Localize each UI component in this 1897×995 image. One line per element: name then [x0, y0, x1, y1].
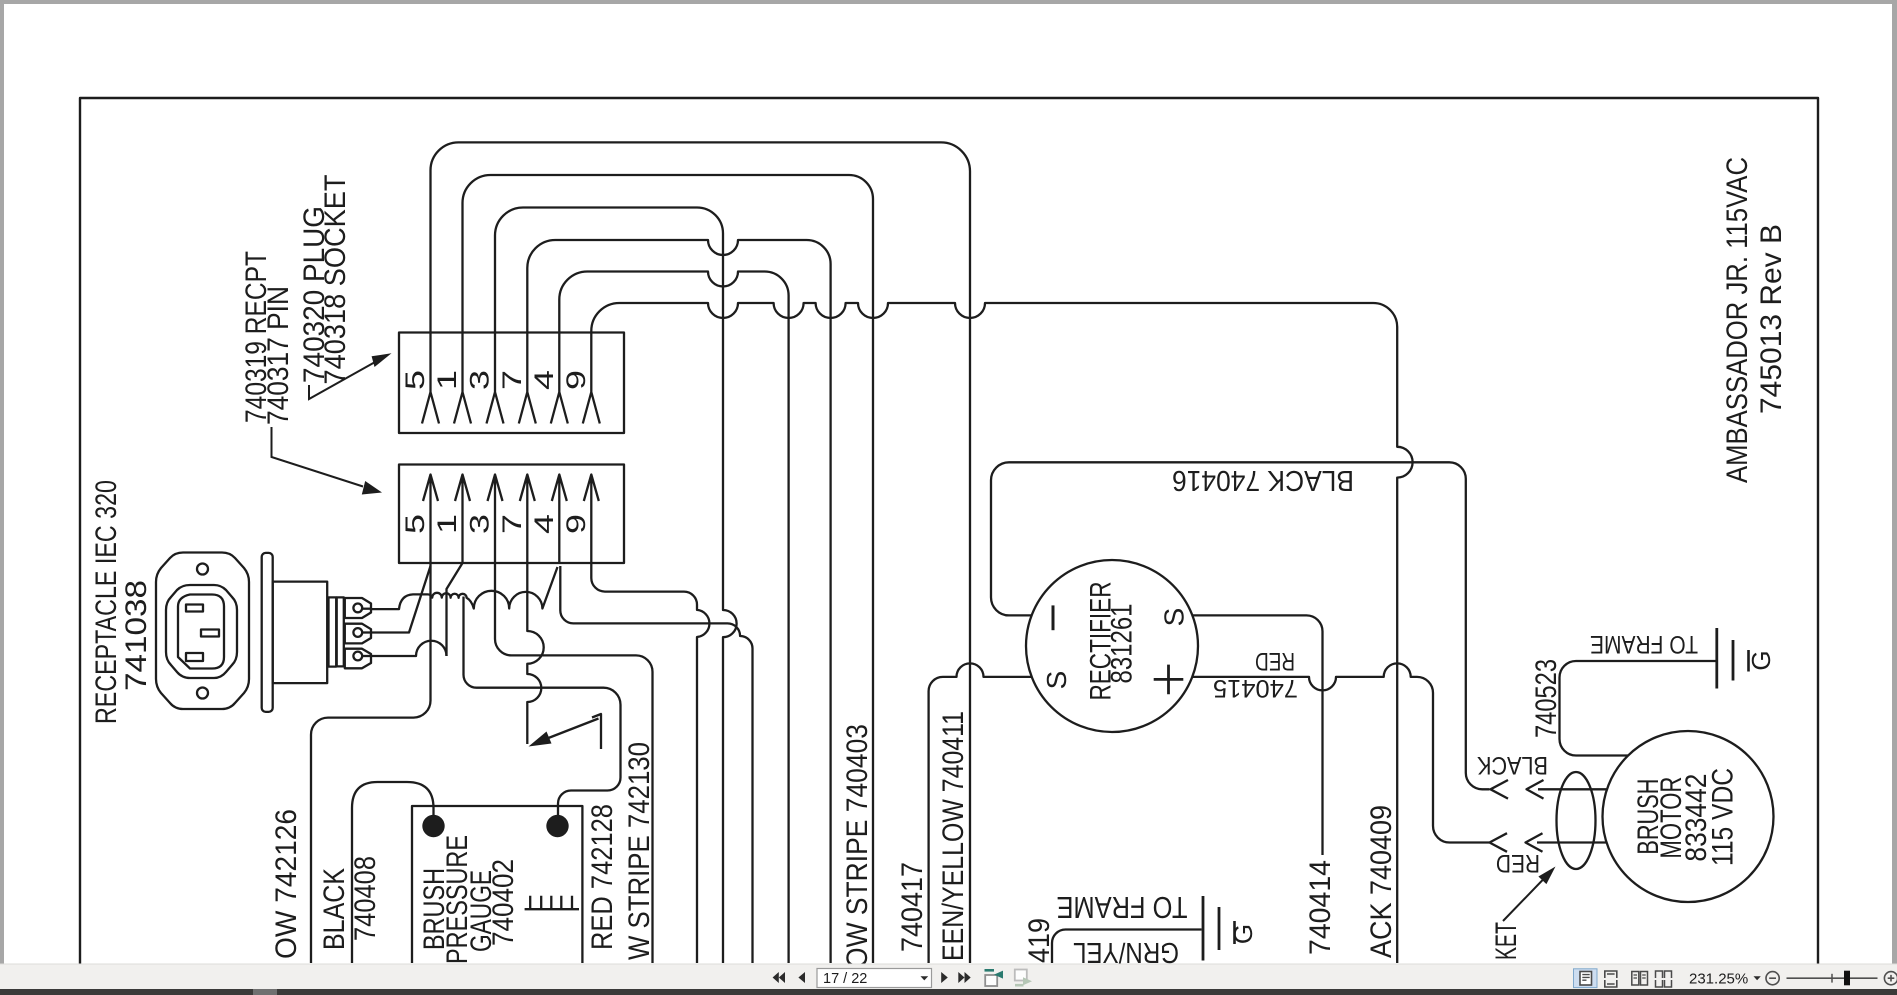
- wire from caterpillar x463.5 down, right y687.7, down x620.5, jog to gauge right terminal (RED 742128): [464, 597, 621, 816]
- plug body: [273, 582, 328, 684]
- svg-text:5: 5: [400, 514, 430, 534]
- svg-text:4: 4: [529, 370, 559, 390]
- svg-text:740523: 740523: [1530, 659, 1563, 738]
- svg-text:GRN/YEL: GRN/YEL: [1073, 936, 1179, 968]
- svg-text:S: S: [1041, 671, 1072, 690]
- zoom slider: [1787, 977, 1878, 979]
- wire plug pin1 to caterpillar start: [362, 608, 372, 610]
- previous view icon: [985, 975, 997, 986]
- zoom in button: [1884, 972, 1897, 985]
- motor black lead pin-side chevron and line into motor: [1527, 780, 1608, 799]
- switch arrowhead: [529, 732, 552, 747]
- svg-text:740317 PIN: 740317 PIN: [262, 286, 295, 425]
- wire top plug pin caterpillar bridge to block2-pin4 with humps over pin3/pin7 verticals: [372, 567, 558, 609]
- block1 pin7 stub and chevron: [519, 333, 536, 424]
- facing layout button: [1632, 972, 1639, 986]
- plug neck bar 2: [337, 597, 344, 666]
- svg-text:9: 9: [561, 514, 591, 534]
- block1 740319/740320 connector rectangle: [399, 333, 624, 434]
- wire block2-pin4 stub down to rightward run y623.4 ending at x752.5 vertical: [560, 566, 752, 963]
- svg-text:740417: 740417: [896, 862, 929, 952]
- svg-text:EEN/YELLOW 740411: EEN/YELLOW 740411: [937, 711, 970, 961]
- ground G2 bar 1: [1202, 896, 1205, 961]
- svg-text:740408: 740408: [349, 856, 382, 941]
- motor red lead wire-side chevron: [1490, 833, 1508, 852]
- svg-text:BLACK 740416: BLACK 740416: [1172, 464, 1354, 496]
- block1 pin5 stub and chevron: [422, 333, 439, 424]
- svg-text:115 VDC: 115 VDC: [1707, 768, 1740, 866]
- receptacle IEC 320 outer flange: [156, 553, 249, 710]
- wire block2-pin5 down through caterpillar to YELLOW 742126: [311, 563, 431, 963]
- svg-text:740402: 740402: [487, 859, 520, 946]
- svg-text:740414: 740414: [1304, 860, 1337, 955]
- svg-text:741038: 741038: [120, 580, 153, 691]
- wire plug pin2 stub: [362, 631, 372, 633]
- continuous layout button: [1605, 971, 1617, 987]
- rectifier plus terminal symbol: [1154, 665, 1184, 695]
- svg-text:W STRIPE 742130: W STRIPE 742130: [623, 742, 656, 960]
- svg-text:1: 1: [432, 370, 462, 390]
- leader arrow to block2 (740319 RECPT / 740317 PIN): [272, 427, 364, 487]
- block1 pin9 stub and chevron: [583, 333, 600, 424]
- block1 pin3 stub and chevron: [487, 333, 504, 424]
- plug pin 1 circle: [353, 604, 362, 613]
- svg-text:BLACK: BLACK: [318, 868, 351, 950]
- brush motor circle M1 833442: [1603, 731, 1774, 902]
- svg-text:BLACK: BLACK: [1477, 751, 1548, 779]
- wire arch3 block1-pin3 down the x722 vertical: [495, 208, 737, 964]
- plug pin terminal 3: [345, 649, 371, 669]
- wire arch5 block1-pin4 down x788, hop over x723: [559, 272, 788, 964]
- brush symbol in gauge: [525, 896, 579, 909]
- svg-text:RED: RED: [1496, 849, 1540, 877]
- wire arch6 block1-pin9 long run to BLACK 740409 vertical x1397, hops over x723 x788 x830 x873 x970: [591, 303, 1412, 963]
- svg-text:9: 9: [561, 370, 591, 390]
- plug pin 2 circle: [353, 628, 362, 637]
- ground G1 bar 2: [1732, 640, 1735, 681]
- wire block2-pin7 down to switch contact with two hops: [527, 563, 543, 744]
- wire arch1 block1-pin5 to GREEN/YELLOW 740411 vertical: [431, 142, 971, 963]
- app chrome: top gray strip: [0, 0, 1897, 4]
- svg-text:831261: 831261: [1106, 604, 1139, 684]
- motor black lead wire-side chevron: [1491, 780, 1509, 799]
- svg-text:1: 1: [432, 514, 462, 534]
- svg-text:RED 742128: RED 742128: [586, 804, 619, 950]
- svg-text:7: 7: [497, 370, 527, 390]
- svg-text:RECEPTACLE IEC 320: RECEPTACLE IEC 320: [90, 480, 123, 724]
- wire middle plug pin diagonal to block2-pin5: [372, 566, 431, 633]
- plug pin 3 circle: [353, 652, 362, 661]
- svg-text:3: 3: [465, 514, 495, 534]
- KET leader arrow line: [1503, 877, 1546, 922]
- block2 740319/740317 connector rectangle: [399, 465, 624, 564]
- ground G2 bar 2: [1218, 907, 1221, 950]
- block2 pin7 stub and arrow: [520, 475, 535, 564]
- receptacle screw hole bottom: [197, 688, 208, 699]
- svg-text:S: S: [1159, 608, 1190, 627]
- svg-text:ACK 740409: ACK 740409: [1365, 805, 1398, 958]
- motor red lead pin-side chevron and line into motor: [1526, 833, 1607, 852]
- zoom out button: [1766, 972, 1779, 985]
- rectifier minus terminal symbol: [1052, 605, 1055, 630]
- svg-text:3: 3: [465, 370, 495, 390]
- wire rectifier S-left going left, hop over x970, down as 740417: [929, 663, 1032, 963]
- receptacle slot 3: [186, 653, 203, 661]
- svg-text:7: 7: [497, 514, 527, 534]
- wire bottom plug pin with hump over pin5 vertical joining block2-pin1: [372, 641, 447, 656]
- KET leader arrowhead: [1538, 867, 1555, 885]
- receptacle screw hole top: [197, 564, 208, 575]
- motor socket ellipse: [1557, 772, 1596, 869]
- ground G1 bar 3: [1747, 650, 1750, 672]
- block2 pin3 stub and arrow: [488, 475, 503, 564]
- svg-text:17 / 22: 17 / 22: [823, 971, 867, 987]
- wire rectifier S-right going right, down as 740414: [1192, 615, 1322, 855]
- svg-text:AMBASSADOR JR. 115VAC: AMBASSADOR JR. 115VAC: [1721, 157, 1754, 483]
- plug pin terminal 2: [345, 624, 371, 644]
- rectifier circle U1 831261: [1026, 560, 1198, 732]
- gauge right terminal dot: [546, 815, 568, 837]
- plug flange bar: [262, 553, 273, 712]
- ground G2 bar 3: [1233, 921, 1236, 944]
- block1 pin1 stub and chevron: [454, 333, 471, 424]
- wire block2-pin3 down then right y655.4 to W STRIPE 742130 vertical x652: [495, 563, 653, 963]
- wire rectifier plus going right to motor RED lead, hops over x1322 and x1397: [1192, 663, 1489, 842]
- app chrome: left gray strip: [0, 0, 4, 964]
- switch arrow line: [542, 719, 599, 741]
- svg-text:TO FRAME: TO FRAME: [1590, 630, 1698, 658]
- wire arch4 block1-pin7 down x830, hop over x723: [527, 240, 830, 963]
- wire GRN/YEL 740419 up from bottom to ground G2: [1052, 930, 1202, 964]
- svg-text:OW 742126: OW 742126: [270, 809, 303, 959]
- svg-text:RED: RED: [1255, 647, 1295, 675]
- wire gauge left terminal to BLACK 740408: [352, 782, 434, 963]
- block2 pin1 stub and arrow: [455, 475, 470, 564]
- leader arrow to block1 (740320 PLUG / 740318 SOCKET): [309, 362, 376, 400]
- svg-text:745013 Rev B: 745013 Rev B: [1755, 224, 1788, 414]
- svg-text:G: G: [1746, 650, 1776, 670]
- svg-text:740415: 740415: [1213, 674, 1298, 702]
- next view icon (disabled): [1015, 970, 1027, 981]
- plug neck bar 1: [329, 597, 337, 666]
- block2 pin4 stub and arrow: [552, 475, 567, 564]
- block2 pin9 stub and arrow: [584, 475, 599, 564]
- wire plug pin3 stub: [362, 655, 372, 657]
- receptacle pocket: [178, 595, 224, 669]
- wire block2-pin9 down then right y591.6 to x697 vertical with hop over y623.4: [591, 563, 709, 963]
- first page button: [773, 972, 779, 983]
- svg-text:231.25%: 231.25%: [1689, 971, 1748, 988]
- wire arch2 block1-pin1 to OW STRIPE 740403 vertical: [463, 175, 874, 963]
- previous page button: [798, 972, 805, 983]
- page number box: [817, 969, 932, 988]
- receptacle slot 2: [201, 630, 219, 637]
- svg-text:OW STRIPE 740403: OW STRIPE 740403: [841, 724, 874, 968]
- block2 pin5 stub and arrow: [423, 475, 438, 564]
- block1 pin4 stub and chevron: [551, 333, 568, 424]
- svg-text:4: 4: [529, 514, 559, 534]
- ground G1 bar 1: [1715, 628, 1718, 689]
- single page layout button (active): [1574, 969, 1598, 988]
- svg-text:TO FRAME: TO FRAME: [1057, 890, 1188, 925]
- svg-text:G: G: [1228, 924, 1258, 944]
- receptacle slot 1: [186, 605, 203, 612]
- next page button: [941, 972, 948, 983]
- wire block2-pin1 diagonal and vertical to bottom plug pin wire: [447, 563, 463, 656]
- gauge left terminal dot: [422, 815, 444, 837]
- wire rectifier minus up and right as BLACK 740416 then down to motor black lead: [991, 462, 1490, 789]
- svg-text:740318 SOCKET: 740318 SOCKET: [319, 175, 352, 385]
- svg-text:5: 5: [400, 370, 430, 390]
- switch lever: [592, 714, 601, 749]
- continuous facing layout button: [1656, 971, 1672, 987]
- svg-text:KET: KET: [1490, 922, 1523, 960]
- receptacle inner outline: [166, 585, 237, 678]
- last page button: [958, 972, 964, 983]
- plug pin terminal 1: [345, 598, 371, 618]
- brush pressure gauge box: [412, 806, 582, 963]
- app chrome: right gray strip: [1892, 0, 1897, 964]
- wire motor frame 740523 to ground G1: [1560, 661, 1716, 756]
